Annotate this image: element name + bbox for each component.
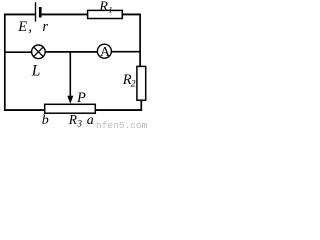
ammeter A circle [97, 44, 111, 58]
svg-text:b: b [42, 113, 49, 128]
wire right rail lower [140, 100, 142, 111]
svg-text:E: E [17, 19, 27, 35]
battery E r : short thick plate [39, 7, 42, 18]
svg-text:R: R [98, 0, 108, 15]
wire left rail [4, 14, 6, 111]
wiper arrowhead [67, 96, 73, 104]
resistor R1 box [88, 10, 123, 18]
wire middle center segment [45, 51, 97, 53]
wire top right segment [122, 13, 141, 15]
svg-text:R: R [68, 112, 78, 127]
svg-text:3: 3 [76, 119, 82, 129]
wire top middle segment [42, 13, 88, 15]
lamp L cross [34, 47, 44, 57]
wire top left segment [4, 13, 35, 15]
svg-text:,: , [28, 19, 32, 35]
wire middle left segment [5, 51, 32, 53]
svg-text:r: r [42, 19, 48, 35]
svg-text:1: 1 [108, 5, 112, 15]
wire bottom [4, 109, 142, 111]
svg-text:L: L [31, 63, 41, 80]
wire right rail upper [139, 14, 141, 68]
svg-text:2: 2 [131, 79, 136, 89]
wire middle right segment [111, 51, 140, 53]
svg-text:hfen5.com: hfen5.com [96, 120, 148, 130]
lamp L circle [32, 45, 46, 59]
rheostat R3 box [45, 104, 96, 113]
svg-text:P: P [76, 90, 86, 106]
svg-text:a: a [87, 113, 94, 128]
resistor R2 box [137, 66, 146, 100]
battery E r : long plate [35, 2, 37, 21]
wire wiper vertical [69, 52, 71, 98]
svg-text:A: A [100, 45, 111, 60]
